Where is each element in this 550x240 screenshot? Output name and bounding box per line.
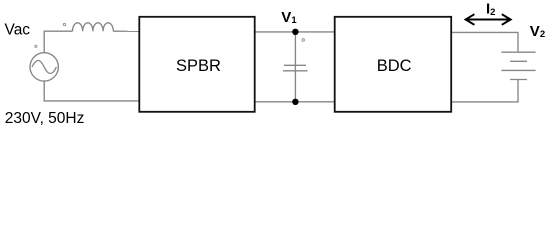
svg-text:230V, 50Hz: 230V, 50Hz [5,110,85,127]
svg-text:SPBR: SPBR [176,57,221,75]
svg-text:BDC: BDC [377,57,412,75]
svg-text:Vac: Vac [5,22,31,39]
